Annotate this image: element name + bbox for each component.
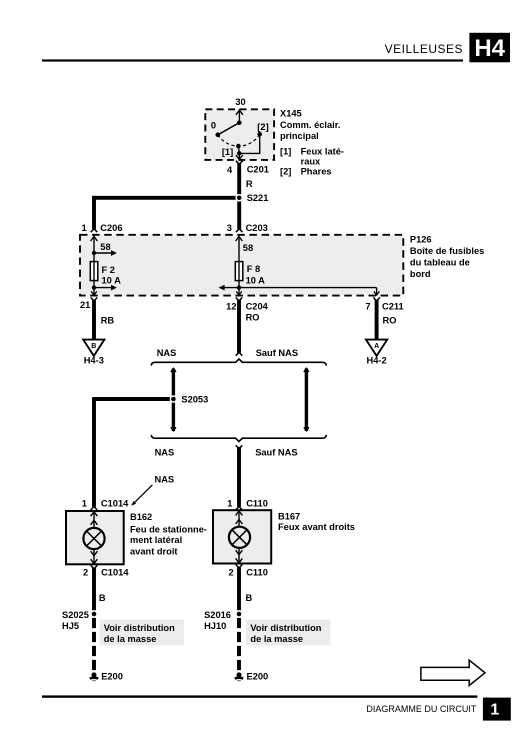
svg-text:avant droit: avant droit	[130, 546, 178, 556]
connector C206 fork	[91, 229, 98, 233]
chevron bottom	[171, 427, 176, 431]
arrow right 58 rail	[94, 252, 111, 254]
svg-text:B: B	[91, 343, 96, 350]
NAS branch wire	[172, 369, 175, 432]
svg-text:E200: E200	[247, 671, 269, 681]
svg-text:Voir distribution: Voir distribution	[250, 623, 321, 633]
svg-text:H4-3: H4-3	[84, 356, 104, 366]
svg-text:1: 1	[82, 223, 87, 233]
svg-text:2: 2	[83, 568, 88, 578]
connector C201 fork	[236, 161, 243, 165]
svg-text:C206: C206	[100, 223, 122, 233]
dashed ground wire	[92, 618, 96, 671]
svg-text:principal: principal	[280, 131, 319, 141]
page number box	[483, 698, 511, 721]
svg-text:12: 12	[226, 302, 236, 312]
wire RO right	[375, 300, 379, 339]
svg-text:P126: P126	[410, 235, 432, 245]
svg-text:10 A: 10 A	[246, 276, 266, 286]
svg-text:58: 58	[243, 243, 253, 253]
wire down-left to C206	[92, 196, 96, 229]
svg-text:58: 58	[100, 242, 110, 252]
pin 7 fork	[373, 297, 380, 301]
wire down to C211 exit	[376, 288, 378, 295]
wire F8 to pin 12	[238, 288, 240, 295]
lamp bottom lead	[93, 550, 95, 564]
svg-text:NAS: NAS	[155, 447, 175, 457]
svg-text:S2053: S2053	[181, 395, 208, 405]
svg-text:B: B	[99, 593, 106, 603]
svg-text:Voir distribution: Voir distribution	[104, 623, 175, 633]
arrowhead down at fusebox exit	[374, 291, 380, 295]
wire contact 1 to output	[237, 146, 240, 153]
svg-text:de la masse: de la masse	[250, 634, 303, 644]
svg-text:10 A: 10 A	[102, 276, 122, 286]
svg-text:Sauf NAS: Sauf NAS	[256, 348, 298, 358]
ground E200 right	[234, 672, 244, 681]
pin 21 fork	[91, 297, 98, 301]
svg-text:ment latéral: ment latéral	[130, 535, 182, 545]
junction node	[237, 151, 242, 156]
svg-text:DIAGRAMME DU CIRCUIT: DIAGRAMME DU CIRCUIT	[366, 704, 477, 714]
bracket centre fork	[236, 445, 243, 448]
svg-text:C204: C204	[246, 302, 269, 312]
lamp element B162	[83, 528, 104, 549]
fuse F8 branch wire	[238, 236, 240, 288]
switch pivot node	[237, 120, 242, 125]
node on 58 rail	[92, 251, 96, 255]
wire S2053 horizontal	[94, 397, 170, 401]
chevron top	[304, 368, 309, 372]
svg-text:RO: RO	[383, 315, 397, 325]
svg-text:H4: H4	[474, 35, 505, 62]
bracket centre fork	[236, 352, 243, 355]
rail to C211 with left arrow	[220, 287, 377, 289]
contact [2]	[257, 132, 262, 137]
svg-text:HJ5: HJ5	[62, 621, 79, 631]
svg-text:Feux laté-: Feux laté-	[301, 146, 344, 156]
svg-text:S2016: S2016	[204, 610, 231, 620]
svg-text:[1]: [1]	[280, 146, 291, 156]
wire left branch horizontal	[94, 196, 236, 200]
fuse F8	[235, 262, 243, 281]
svg-text:A: A	[374, 343, 379, 350]
arrow right below F2	[94, 287, 111, 289]
note box voir distribution	[100, 620, 185, 646]
svg-text:Feux avant droits: Feux avant droits	[278, 522, 355, 532]
arrowhead up at fusebox entry	[236, 237, 243, 242]
svg-text:HJ10: HJ10	[204, 621, 226, 631]
svg-text:Feu de stationne-: Feu de stationne-	[130, 524, 207, 534]
svg-text:4: 4	[227, 165, 233, 175]
svg-text:raux: raux	[301, 157, 321, 167]
dashed travel arc	[218, 134, 260, 146]
wire 30 feed into switch	[238, 110, 240, 123]
svg-text:Phares: Phares	[301, 167, 332, 177]
chevron bottom	[304, 427, 309, 431]
svg-text:S2025: S2025	[62, 610, 89, 620]
wire B right	[237, 568, 241, 611]
svg-text:F 2: F 2	[102, 265, 115, 275]
wire RO middle	[237, 300, 241, 353]
svg-text:NAS: NAS	[157, 348, 177, 358]
connector C110 fork	[236, 507, 243, 511]
lamp element B167	[229, 527, 250, 548]
chevron top	[171, 368, 176, 372]
switch output wire	[238, 153, 240, 158]
fuse F2	[90, 262, 98, 281]
svg-text:C1014: C1014	[101, 568, 129, 578]
svg-text:C211: C211	[382, 302, 404, 312]
fuse F2 branch wire	[93, 236, 95, 288]
arrowhead down at fusebox exit	[91, 291, 97, 295]
lamp bottom lead	[238, 549, 240, 563]
connector C203 fork	[236, 229, 243, 233]
lamp top lead	[238, 511, 240, 527]
svg-text:C110: C110	[246, 498, 268, 508]
wire down to B167	[237, 447, 241, 507]
svg-text:RO: RO	[246, 313, 260, 323]
top rule	[42, 59, 463, 61]
svg-text:du tableau de: du tableau de	[410, 258, 470, 268]
svg-text:2: 2	[229, 568, 234, 578]
splice S2025	[90, 610, 98, 618]
page code box H4	[469, 33, 510, 63]
svg-text:F 8: F 8	[247, 264, 260, 274]
bottom rule	[42, 695, 477, 697]
svg-text:Boîte de fusibles: Boîte de fusibles	[410, 246, 484, 256]
Sauf NAS branch wire	[305, 369, 308, 432]
off-page connector B H4-3	[83, 340, 104, 366]
svg-text:E200: E200	[101, 671, 123, 681]
svg-text:C110: C110	[246, 568, 268, 578]
svg-text:21: 21	[80, 300, 90, 310]
svg-text:B162: B162	[130, 512, 152, 522]
next page arrow	[421, 660, 485, 685]
svg-text:VEILLEUSES: VEILLEUSES	[385, 42, 463, 56]
svg-text:X145: X145	[280, 109, 302, 119]
svg-text:[1]: [1]	[222, 147, 233, 157]
wire RB	[92, 300, 96, 339]
contact 0	[216, 133, 221, 138]
off-page connector A H4-2	[366, 340, 387, 366]
connector C1014 fork	[91, 565, 98, 569]
arrowhead down at switch exit	[236, 155, 243, 159]
svg-text:S221: S221	[247, 193, 269, 203]
svg-text:[2]: [2]	[280, 167, 291, 177]
ground E200 left	[89, 672, 99, 681]
wire from contact 2	[241, 134, 260, 153]
svg-text:R: R	[246, 179, 253, 189]
arrowhead down at fusebox exit	[236, 291, 242, 295]
fusebox P126	[80, 235, 403, 296]
node below F8	[237, 285, 241, 289]
svg-text:[2]: [2]	[257, 122, 268, 132]
lamp B167 box	[213, 510, 271, 563]
svg-text:B167: B167	[278, 512, 300, 522]
svg-text:Sauf NAS: Sauf NAS	[255, 447, 297, 457]
pin 12 fork	[236, 297, 243, 301]
top option bracket	[151, 359, 326, 366]
svg-text:Comm. éclair.: Comm. éclair.	[280, 120, 340, 130]
svg-text:NAS: NAS	[155, 475, 175, 485]
switch X145 box	[205, 109, 274, 160]
callout arrow	[134, 485, 152, 503]
dashed ground wire	[237, 618, 241, 671]
arrowhead up at fusebox entry	[91, 237, 98, 242]
arrowhead up at pin 30	[236, 110, 243, 115]
switch wiper arm	[218, 123, 240, 135]
bottom option bracket	[151, 435, 326, 442]
svg-text:C203: C203	[246, 223, 268, 233]
connector C1014 fork	[91, 507, 98, 511]
wire B left	[92, 568, 96, 610]
svg-text:1: 1	[82, 499, 87, 509]
wire R from C201 to S221	[237, 164, 241, 230]
svg-text:RB: RB	[101, 316, 115, 326]
connector C110 fork	[236, 565, 243, 569]
lamp top lead	[93, 512, 95, 528]
svg-text:1: 1	[490, 702, 499, 719]
lamp B162 box	[66, 511, 124, 564]
svg-text:0: 0	[211, 121, 216, 131]
wire F2 to pin 21	[93, 288, 95, 295]
svg-text:1: 1	[227, 498, 232, 508]
svg-text:H4-2: H4-2	[367, 356, 387, 366]
splice S221	[235, 194, 243, 202]
svg-text:B: B	[246, 593, 253, 603]
svg-text:30: 30	[235, 97, 245, 107]
note box voir distribution	[246, 620, 331, 646]
svg-text:3: 3	[227, 223, 232, 233]
svg-text:7: 7	[365, 302, 370, 312]
svg-text:C201: C201	[247, 165, 269, 175]
svg-text:de la masse: de la masse	[104, 634, 157, 644]
contact [1]	[236, 144, 241, 149]
wire down to B162	[92, 397, 96, 507]
node below F2	[92, 285, 96, 289]
svg-text:bord: bord	[410, 269, 431, 279]
svg-text:C1014: C1014	[101, 499, 129, 509]
splice S2016	[235, 610, 243, 618]
splice S2053	[170, 395, 178, 403]
